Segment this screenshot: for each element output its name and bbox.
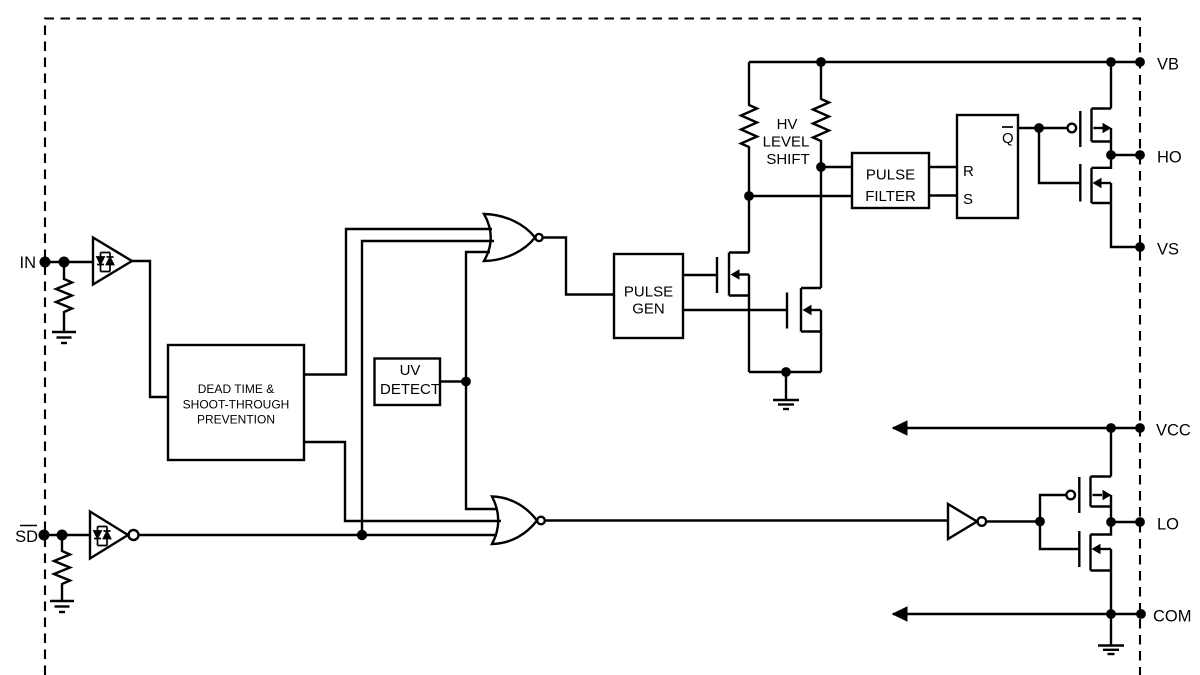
clamp diodes inside U2	[94, 527, 111, 546]
node LO	[1106, 517, 1116, 527]
svg-text:HO: HO	[1157, 149, 1182, 167]
wire node down to Q4 gate	[1040, 522, 1079, 550]
svg-text:VB: VB	[1157, 56, 1179, 74]
svg-text:VS: VS	[1157, 241, 1179, 259]
ground (SD pulldown)	[50, 601, 74, 612]
resistor R1 (HV level shift left)	[741, 62, 757, 196]
wire latch Qbar out	[1018, 127, 1067, 129]
input buffer U2 (SD, inverting)	[90, 512, 128, 559]
wire VCC line with arrow	[893, 427, 1140, 429]
wire Qbar down to Q2 gate	[1039, 128, 1080, 183]
wire PULSE GEN out B to M2 gate	[683, 309, 787, 311]
wire level-shift source rail	[749, 371, 821, 373]
wire PULSE FILTER to latch S	[929, 194, 957, 196]
svg-text:HV: HV	[777, 116, 798, 133]
svg-text:LEVEL: LEVEL	[763, 134, 810, 151]
ground (COM)	[1098, 646, 1124, 655]
node SD junction	[57, 530, 68, 541]
svg-text:VCC: VCC	[1156, 422, 1191, 440]
transistor Q2 (HO NMOS)	[1080, 155, 1111, 203]
svg-text:UV: UV	[400, 362, 421, 379]
wire M1 source down	[748, 275, 750, 373]
wire G2 out to inverter	[545, 519, 948, 521]
wire buffer U1 out to DT block	[132, 261, 168, 397]
block UV DETECT	[375, 359, 441, 406]
resistor R2 (HV level shift right)	[813, 62, 829, 167]
node source rail junction	[781, 367, 791, 377]
pin SD dot	[39, 530, 50, 541]
svg-text:GEN: GEN	[632, 301, 665, 318]
wire DT top output to NOR1 input A	[304, 229, 492, 375]
pin VS	[1135, 242, 1145, 252]
node UV junction	[461, 377, 471, 387]
wire COM node to ground	[1110, 614, 1112, 645]
wire Q1 source to HO node	[1110, 128, 1112, 155]
svg-text:PULSE: PULSE	[866, 167, 915, 184]
arrow VCC	[892, 420, 908, 435]
svg-text:SHIFT: SHIFT	[766, 151, 809, 168]
svg-text:SD: SD	[15, 528, 38, 546]
svg-text:S: S	[963, 191, 973, 208]
node Qbar junction	[1034, 123, 1044, 133]
wire Q4 rail LO to COM	[1110, 549, 1112, 614]
wire UV DETECT output	[440, 380, 466, 382]
clamp diodes inside U1	[97, 253, 114, 272]
pin VCC	[1135, 423, 1145, 433]
node COM junction	[1106, 609, 1116, 619]
bubble U2 output	[129, 530, 139, 540]
wire R1 node to PULSE FILTER S input	[749, 195, 852, 197]
wire Q1 drain to VB rail	[1110, 62, 1112, 109]
ground (level shift)	[773, 400, 799, 409]
node R1 bottom	[744, 191, 754, 201]
svg-text:SHOOT-THROUGH: SHOOT-THROUGH	[183, 398, 290, 412]
pin HO	[1135, 150, 1145, 160]
wire G1 out to PULSE GEN	[543, 238, 614, 295]
wire DT bottom output to NOR2 input B	[304, 442, 501, 521]
transistor Q4 (LO NMOS)	[1079, 522, 1111, 571]
svg-text:DEAD TIME &: DEAD TIME &	[198, 382, 274, 396]
wire PULSE GEN out A to M1 gate	[683, 274, 717, 276]
svg-text:PREVENTION: PREVENTION	[197, 413, 275, 427]
block PULSE GEN	[614, 254, 683, 338]
inverter U4	[948, 504, 977, 539]
wire node up to Q3 gate	[1040, 495, 1066, 522]
svg-text:IN: IN	[20, 254, 37, 272]
pin LO	[1135, 517, 1145, 527]
node IN junction	[59, 257, 70, 268]
wire SD buffer out to NOR2 input C	[139, 534, 498, 536]
RS latch U3	[957, 115, 1018, 218]
bubble G2 output	[537, 517, 545, 525]
svg-text:PULSE: PULSE	[624, 284, 673, 301]
node R2 top junction	[816, 57, 826, 67]
transistor M2 (level-shift NMOS)	[787, 288, 821, 332]
transistor M1 (level-shift NMOS)	[717, 253, 749, 296]
wire Q2 rail HO to VS	[1111, 183, 1140, 247]
wire Q3 drain to VCC rail	[1110, 428, 1112, 477]
node VCC junction	[1106, 423, 1116, 433]
node SD line junction	[357, 530, 367, 540]
wire to ground	[785, 372, 787, 400]
wire COM line with arrow	[893, 613, 1141, 615]
wire UV node up to NOR1 input C	[466, 252, 490, 382]
input buffer U1 (IN)	[93, 238, 132, 285]
NOR gate G1	[484, 214, 535, 261]
svg-text:Q: Q	[1002, 130, 1014, 147]
transistor Q3 (LO PMOS)	[1066, 477, 1111, 514]
svg-text:LO: LO	[1157, 516, 1179, 534]
NOR gate G2	[492, 497, 537, 545]
bubble G1 output	[535, 234, 542, 241]
svg-text:R: R	[963, 163, 974, 180]
wire Q3 source to LO node	[1110, 495, 1112, 522]
pin COM	[1136, 609, 1146, 619]
wire SD junction up to NOR1 input B	[362, 241, 494, 535]
resistor R_SD pulldown	[54, 535, 70, 601]
pin VB	[1135, 57, 1145, 67]
svg-text:COM: COM	[1153, 608, 1192, 626]
node HO	[1106, 150, 1116, 160]
transistor Q1 (HO PMOS)	[1068, 109, 1112, 148]
wire UV node down to NOR2 input A	[466, 382, 497, 510]
wire R2 node to PULSE FILTER R input	[821, 166, 852, 168]
svg-text:FILTER: FILTER	[865, 188, 916, 205]
wire IN to buffer	[45, 261, 93, 263]
wire M1 drain up to R1 node	[748, 196, 750, 253]
wire M2 drain up to R2 node	[820, 167, 822, 288]
wire M2 source down	[820, 310, 822, 372]
ground (IN pulldown)	[52, 332, 76, 343]
wire HO node to pin	[1111, 154, 1140, 156]
node LO gate junction	[1035, 517, 1045, 527]
wire SD to buffer	[45, 534, 90, 536]
wire PULSE FILTER to latch R	[929, 166, 957, 168]
wire VB top rail	[749, 61, 1140, 63]
node VB rail junction	[1106, 57, 1116, 67]
block PULSE FILTER	[852, 153, 929, 208]
node R2 bottom	[816, 162, 826, 172]
resistor R_IN pulldown	[56, 262, 72, 332]
wire U4 out to gates node	[986, 520, 1040, 522]
wire LO node to pin	[1111, 521, 1140, 523]
arrow COM	[892, 606, 908, 621]
svg-text:DETECT: DETECT	[380, 381, 440, 398]
block: DEAD TIME & SHOOT-THROUGH PREVENTION	[168, 345, 304, 460]
bubble U4 output	[978, 517, 987, 526]
pin IN dot	[40, 257, 51, 268]
